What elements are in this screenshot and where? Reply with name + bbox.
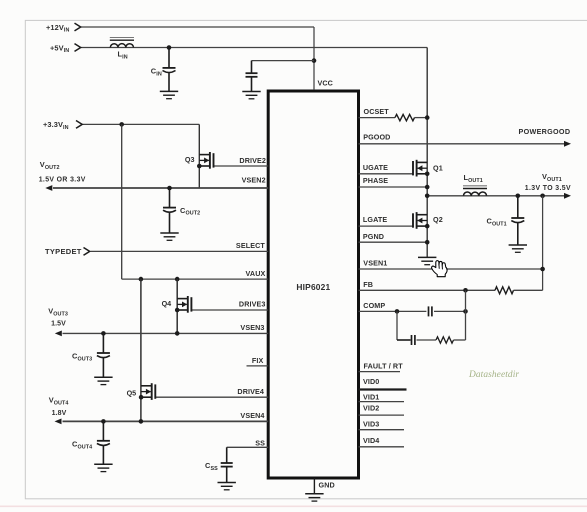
svg-text:FAULT / RT: FAULT / RT xyxy=(364,361,404,370)
svg-text:SS: SS xyxy=(255,438,265,447)
svg-text:COUT1: COUT1 xyxy=(487,216,507,227)
svg-text:Q5: Q5 xyxy=(127,388,137,397)
svg-text:VID3: VID3 xyxy=(363,419,379,428)
svg-text:VOUT4: VOUT4 xyxy=(49,396,69,407)
svg-text:POWERGOOD: POWERGOOD xyxy=(519,127,571,136)
svg-text:CIN: CIN xyxy=(151,67,162,78)
svg-text:DRIVE2: DRIVE2 xyxy=(239,156,266,165)
svg-text:LIN: LIN xyxy=(118,49,128,60)
svg-text:VOUT2: VOUT2 xyxy=(40,160,60,171)
svg-text:VOUT3: VOUT3 xyxy=(48,307,68,318)
svg-text:Datasheetdir: Datasheetdir xyxy=(468,370,519,380)
svg-text:VSEN3: VSEN3 xyxy=(240,323,264,332)
svg-text:+5VIN: +5VIN xyxy=(50,43,69,54)
svg-text:VID4: VID4 xyxy=(363,436,379,445)
svg-text:VCC: VCC xyxy=(318,79,333,88)
svg-text:VID0: VID0 xyxy=(363,377,379,386)
svg-text:PHASE: PHASE xyxy=(363,176,388,185)
svg-text:1.5V OR 3.3V: 1.5V OR 3.3V xyxy=(39,176,86,183)
svg-text:FIX: FIX xyxy=(252,356,264,365)
svg-text:1.5V: 1.5V xyxy=(51,320,66,327)
svg-text:HIP6021: HIP6021 xyxy=(296,282,330,292)
svg-text:COUT2: COUT2 xyxy=(180,206,200,217)
svg-text:VAUX: VAUX xyxy=(246,269,266,278)
svg-text:OCSET: OCSET xyxy=(364,107,390,116)
svg-text:1.3V TO 3.5V: 1.3V TO 3.5V xyxy=(525,185,571,192)
svg-text:COMP: COMP xyxy=(363,301,385,310)
svg-text:Q2: Q2 xyxy=(433,215,443,224)
svg-text:1.8V: 1.8V xyxy=(52,410,67,417)
svg-text:VID1: VID1 xyxy=(363,392,379,401)
svg-text:FB: FB xyxy=(363,280,373,289)
svg-text:CSS: CSS xyxy=(205,461,218,472)
svg-text:SELECT: SELECT xyxy=(236,241,265,250)
svg-text:DRIVE3: DRIVE3 xyxy=(239,300,266,309)
svg-text:Q1: Q1 xyxy=(433,164,443,173)
svg-text:GND: GND xyxy=(319,481,335,490)
svg-text:+12VIN: +12VIN xyxy=(46,23,69,34)
svg-text:Q3: Q3 xyxy=(185,155,195,164)
svg-text:PGND: PGND xyxy=(363,232,384,241)
svg-text:PGOOD: PGOOD xyxy=(363,132,390,141)
svg-text:VOUT1: VOUT1 xyxy=(542,172,562,183)
svg-text:TYPEDET: TYPEDET xyxy=(45,247,82,256)
svg-text:COUT4: COUT4 xyxy=(72,439,92,450)
svg-text:VSEN1: VSEN1 xyxy=(363,258,387,267)
svg-text:VSEN2: VSEN2 xyxy=(242,175,266,184)
svg-text:VID2: VID2 xyxy=(363,403,379,412)
svg-text:+3.3VIN: +3.3VIN xyxy=(43,120,69,131)
svg-text:COUT3: COUT3 xyxy=(72,352,92,363)
svg-text:VSEN4: VSEN4 xyxy=(240,411,264,420)
svg-text:LOUT1: LOUT1 xyxy=(464,173,483,184)
svg-text:Q4: Q4 xyxy=(162,299,172,308)
svg-text:LGATE: LGATE xyxy=(363,215,387,224)
svg-text:DRIVE4: DRIVE4 xyxy=(237,387,264,396)
svg-text:UGATE: UGATE xyxy=(363,163,388,172)
